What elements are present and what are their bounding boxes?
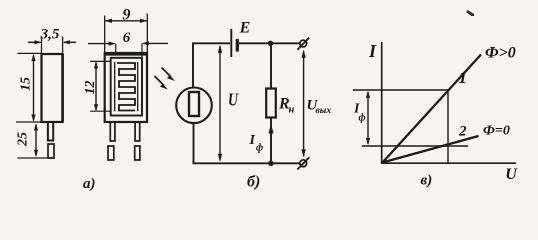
svg-text:ф: ф xyxy=(359,113,366,124)
dimension line 3,5 right arrow xyxy=(64,41,76,43)
svg-text:6: 6 xyxy=(123,30,131,46)
voltage dimension arrow U xyxy=(219,46,221,161)
right lead upper segment xyxy=(135,122,140,141)
resistor RH body xyxy=(266,89,276,118)
dimension line 3,5 left arrow xyxy=(28,41,41,43)
svg-text:12: 12 xyxy=(83,81,98,95)
photoresistor side-view body outline xyxy=(42,54,63,122)
extension line 12 bottom xyxy=(90,110,111,112)
wire RH branch lower xyxy=(270,118,272,164)
svg-text:в): в) xyxy=(421,173,433,189)
dimension line 25 xyxy=(35,125,37,156)
svg-text:I: I xyxy=(249,133,256,148)
wire top left segment xyxy=(193,43,230,88)
extension line for 15 top xyxy=(18,52,42,54)
svg-text:I: I xyxy=(368,41,377,61)
light flux arrow 1 xyxy=(162,68,172,78)
extension line 6 left xyxy=(115,44,117,53)
svg-text:вых: вых xyxy=(316,106,332,116)
svg-text:U: U xyxy=(505,166,518,183)
photoresistor symbol circle xyxy=(176,88,212,124)
svg-text:а): а) xyxy=(83,176,96,192)
svg-text:E: E xyxy=(239,20,251,37)
svg-text:н: н xyxy=(289,105,295,116)
svg-text:U: U xyxy=(228,90,239,110)
svg-text:ф: ф xyxy=(256,143,263,154)
sensitive layer left outline xyxy=(114,62,116,112)
photoresistor symbol resistor body xyxy=(189,92,199,116)
extension line for 25 bottom xyxy=(18,157,54,159)
extension line 9 right xyxy=(146,14,148,57)
photoresistor front-view case outline xyxy=(105,53,147,122)
svg-text:1: 1 xyxy=(459,68,468,87)
axis I vertical xyxy=(381,42,383,164)
curve 2 dark xyxy=(383,136,479,163)
extension line 12 top xyxy=(90,60,111,62)
lead pin upper segment xyxy=(48,122,53,141)
scan artifact: top right tick xyxy=(467,11,473,15)
left lead upper segment xyxy=(110,122,115,141)
svg-text:Ф=0: Ф=0 xyxy=(483,124,510,139)
extension line for 15 bottom (body bottom prolonged) xyxy=(16,121,42,123)
battery E long plate xyxy=(230,29,232,57)
wire RH branch upper xyxy=(270,43,272,88)
extension line 9 left xyxy=(104,16,106,54)
node junction dot top xyxy=(268,41,273,46)
svg-text:15: 15 xyxy=(19,77,34,91)
curve 1 illuminated xyxy=(383,55,482,163)
output terminal top xyxy=(300,40,307,47)
right lead lower segment xyxy=(135,146,140,160)
dimension line 15 xyxy=(33,55,35,121)
output terminal bottom xyxy=(300,160,307,167)
dimension line 12 xyxy=(95,63,97,111)
meander sensitive element xyxy=(117,63,135,111)
case top edge thick xyxy=(105,54,147,56)
lead pin lower segment xyxy=(48,144,54,158)
svg-text:б): б) xyxy=(247,174,260,191)
drop line from point 1 xyxy=(447,90,449,163)
svg-text:2: 2 xyxy=(458,124,467,140)
left lead lower segment xyxy=(108,146,114,160)
wire bottom xyxy=(193,162,300,164)
current arrow I_f head xyxy=(269,124,274,134)
dimension line 6 right arrow xyxy=(143,42,168,44)
extension line 6 right xyxy=(141,43,143,57)
svg-text:Ф>0: Ф>0 xyxy=(485,45,516,62)
light flux arrow 2 xyxy=(155,76,165,86)
node junction dot bottom xyxy=(268,161,273,166)
axis U horizontal xyxy=(381,162,516,164)
level line at curve 2 xyxy=(362,145,468,147)
wire left bottom segment xyxy=(193,123,195,164)
svg-text:3,5: 3,5 xyxy=(40,27,60,43)
dimension line 9 xyxy=(106,20,147,22)
dimension line 6 left arrow xyxy=(88,43,115,45)
output voltage dimension arrow U_out xyxy=(303,51,305,156)
window frame inner rectangle xyxy=(111,58,142,116)
extension line top left xyxy=(41,37,43,55)
battery E short plate xyxy=(236,39,239,52)
sensitive layer right outline xyxy=(137,62,139,112)
svg-text:25: 25 xyxy=(16,132,31,147)
level line at point 1 xyxy=(353,89,448,91)
wire top right segment xyxy=(239,42,300,44)
body right edge thick line xyxy=(61,54,64,122)
extension line top right xyxy=(62,37,64,55)
photocurrent dimension arrow I_f xyxy=(367,92,369,144)
